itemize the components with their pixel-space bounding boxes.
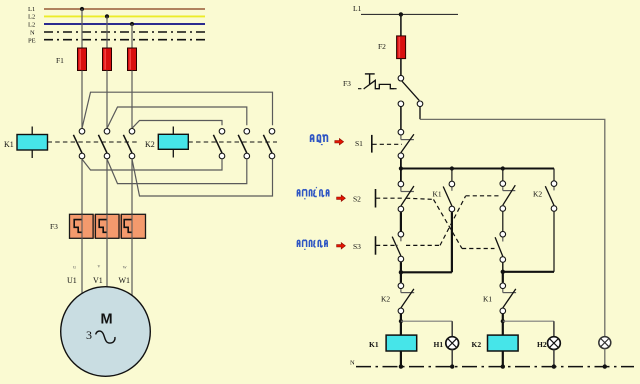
rail L1 (28, 6, 205, 13)
start button S3 (หมุนขวา) (353, 231, 404, 261)
overload contact F3 (control, changeover) (343, 74, 423, 107)
rail L2 (28, 14, 205, 21)
wire col3 row2 to node C (502, 263, 504, 272)
aux contact K1 (seal-in) (433, 181, 455, 212)
wire tap to lamp H2 (503, 320, 554, 322)
svg-text:W1: W1 (119, 276, 131, 285)
lamp H2 (537, 337, 560, 350)
wire tap to lamp H1 (401, 320, 452, 322)
svg-text:K1: K1 (369, 340, 379, 349)
contactor K2 main contact pole 2 (238, 129, 249, 159)
wire S2 to S3 (left column) (400, 212, 402, 231)
contactor K1 main contact pole 1 (73, 129, 84, 159)
wire node B to K2 interlock (400, 272, 402, 282)
wire crossover top pole2 to K2 pole2 (107, 107, 247, 128)
wire crossover top pole3 to K2 pole1 (132, 121, 222, 129)
wire L2 tap to fuse F1b (106, 16, 108, 48)
wire K2 interlock to coil K1 (400, 314, 402, 335)
wire col3 row1 to row2 (502, 212, 504, 232)
contactor K1 coil (power) (4, 127, 138, 159)
start button S2 (NC drawn, หมุนซ้าย) (353, 181, 414, 212)
wire F3 NO to fault lamp branch (419, 107, 421, 119)
svg-text:K1: K1 (4, 140, 14, 149)
svg-text:L2: L2 (28, 22, 35, 29)
svg-text:K2: K2 (381, 295, 390, 304)
aux contact K2 (seal-in) (533, 181, 557, 212)
overload relay F3 (power) (50, 214, 146, 238)
svg-text:3: 3 (86, 328, 92, 342)
svg-text:K2: K2 (533, 190, 542, 199)
svg-text:N: N (350, 360, 355, 367)
svg-text:K2: K2 (472, 340, 482, 349)
wire crossover bottom pole1 to K2 pole1 (82, 159, 222, 170)
fuse F1 (56, 48, 137, 71)
coil K1 (control) (369, 335, 417, 351)
svg-text:S3: S3 (353, 242, 361, 251)
contactor K2 main contact pole 1 (213, 129, 224, 159)
interlock contact K2 (NC) (381, 283, 414, 314)
wire F2 to F3 contact (400, 59, 402, 76)
svg-text:L1: L1 (28, 6, 35, 13)
label หมุนซ้าย (run left) (297, 187, 328, 199)
wire fuse F1 to K1 poles (82, 71, 132, 129)
wire K2 aux down to node C (553, 212, 555, 272)
fuse F2 (378, 36, 406, 59)
wire crossover bottom pole3 to K2 pole3 (132, 159, 273, 196)
node tap H2 (501, 319, 505, 323)
wire S1 to node A (400, 159, 402, 169)
linkage S2 to interlock (406, 198, 495, 248)
node tap L2 (105, 14, 109, 18)
wire K1 aux down to node B (451, 212, 453, 272)
svg-text:w: w (123, 265, 127, 271)
rail N (control) (350, 360, 634, 369)
lamp H3 (fault) (599, 337, 611, 349)
wire node C to K1 interlock (502, 272, 504, 283)
node A bus (399, 166, 554, 170)
motor M1 (61, 287, 151, 377)
wire coil K1 to N (400, 351, 402, 367)
node tap H1 (399, 319, 403, 323)
contactor K1 main contact pole 3 (123, 129, 134, 159)
node tap L3 (130, 22, 134, 26)
wire L3 tap to fuse F1c (131, 24, 133, 48)
wire L1 to fuse F2 (400, 14, 402, 36)
coil K2 (control) (472, 335, 519, 351)
svg-text:U1: U1 (67, 276, 77, 285)
node B bus (399, 270, 452, 274)
label หยุด (stop) (311, 134, 328, 144)
terminal labels u v w (73, 264, 127, 271)
wire F3 to motor (82, 238, 132, 295)
rail L3 (28, 22, 205, 29)
wire F3 NC to S1 (400, 107, 402, 129)
wire lamp H3 to N (604, 349, 606, 367)
svg-text:L2: L2 (28, 14, 35, 21)
rail PE (28, 38, 205, 45)
node C bus (501, 270, 554, 274)
rail N (30, 30, 205, 37)
node L1 (control) (353, 4, 458, 17)
svg-text:K1: K1 (433, 190, 442, 199)
wire node A to K2 aux (553, 169, 555, 181)
stop button S1 (355, 129, 414, 158)
svg-text:F1: F1 (56, 56, 64, 65)
wire lamp H2 to N (553, 349, 555, 366)
svg-text:K2: K2 (145, 140, 155, 149)
svg-text:F3: F3 (50, 222, 58, 231)
wire coil K2 to N (502, 351, 504, 367)
upper contact S3-NO column (x=502.8) (500, 181, 515, 212)
svg-text:F3: F3 (343, 79, 351, 88)
svg-text:u: u (73, 265, 76, 271)
svg-text:PE: PE (28, 38, 36, 45)
wire node A to S3 upper (502, 169, 504, 181)
wire S3 to node B (400, 262, 402, 272)
arrow S3 (337, 243, 346, 249)
contactor K2 coil (power) (145, 127, 277, 158)
svg-text:L1: L1 (353, 4, 362, 13)
contactor K1 main contact pole 2 (98, 129, 109, 159)
terminal labels U1 V1 W1 (67, 276, 130, 285)
wire L1 tap to fuse F1a (81, 9, 83, 48)
node tap L1 (80, 7, 84, 11)
wire crossover bottom pole2 to K2 pole2 (107, 159, 247, 184)
contactor K2 main contact pole 3 (263, 129, 274, 159)
lamp H1 (434, 337, 459, 350)
svg-text:K1: K1 (483, 295, 492, 304)
svg-text:N: N (30, 30, 35, 37)
linkage S3 to interlock (406, 196, 500, 246)
svg-text:H1: H1 (434, 340, 444, 349)
svg-text:H2: H2 (537, 340, 547, 349)
svg-text:S2: S2 (353, 195, 361, 204)
arrow S2 (337, 195, 346, 201)
svg-text:F2: F2 (378, 42, 386, 51)
label หมุนขวา (run right) (297, 240, 327, 249)
wire node A to K1 aux (451, 169, 453, 181)
arrow S1 (335, 139, 344, 145)
wire crossover top pole1 to K2 pole3 (82, 92, 273, 128)
lower contact S2-NC column (x=502.8) (495, 231, 506, 262)
interlock contact K1 (NC) (483, 283, 516, 314)
wire node A to S2 (400, 169, 402, 182)
svg-text:M: M (101, 311, 113, 327)
svg-text:v: v (98, 264, 101, 270)
wire K1 interlock to coil K2 (502, 314, 504, 335)
svg-text:S1: S1 (355, 139, 363, 148)
svg-text:V1: V1 (93, 276, 103, 285)
wire lamp H1 to N (451, 349, 453, 366)
wire K1 poles to overload F3 (82, 159, 132, 238)
